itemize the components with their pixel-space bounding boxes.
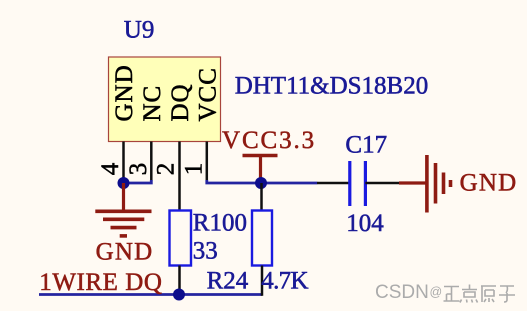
点 bbox=[460, 285, 478, 303]
pin 4 wire bbox=[122, 142, 125, 184]
svg-text:R100: R100 bbox=[193, 210, 247, 237]
ground symbol left bbox=[95, 183, 151, 236]
svg-text:VCC: VCC bbox=[195, 67, 222, 121]
svg-text:NC: NC bbox=[139, 85, 166, 122]
resistor R100 bottom lead bbox=[178, 266, 181, 295]
capacitor C17 plates bbox=[348, 161, 351, 206]
svg-text:104: 104 bbox=[346, 210, 384, 237]
svg-text:1: 1 bbox=[180, 163, 207, 176]
wire pin1 to VCC node bbox=[207, 180, 317, 183]
正 bbox=[444, 287, 460, 302]
svg-text:3: 3 bbox=[125, 163, 152, 176]
svg-text:DQ: DQ bbox=[167, 83, 194, 121]
svg-text:GND: GND bbox=[96, 239, 154, 266]
capacitor C17 left lead bbox=[317, 182, 350, 185]
svg-text:4: 4 bbox=[97, 162, 124, 175]
svg-text:GND: GND bbox=[111, 64, 138, 121]
component U9 body bbox=[109, 57, 221, 142]
svg-text:C17: C17 bbox=[345, 132, 387, 159]
wire pin3 to pin4 elbow bbox=[124, 180, 152, 183]
resistor R24 bottom lead bbox=[261, 266, 264, 296]
svg-text:VCC3.3: VCC3.3 bbox=[222, 127, 316, 154]
svg-text:4.7K: 4.7K bbox=[261, 268, 308, 295]
svg-text:DHT11&DS18B20: DHT11&DS18B20 bbox=[235, 73, 429, 100]
pin 2 wire bbox=[178, 142, 181, 211]
svg-text:CSDN: CSDN bbox=[375, 282, 429, 303]
原 bbox=[481, 286, 496, 302]
svg-text:@: @ bbox=[430, 285, 443, 299]
svg-text:GND: GND bbox=[460, 170, 518, 197]
watermark chinese 正点原子 bbox=[444, 285, 516, 303]
junction node 1WIRE_DQ bbox=[173, 289, 185, 301]
svg-text:2: 2 bbox=[153, 163, 180, 176]
svg-text:U9: U9 bbox=[124, 17, 155, 44]
resistor R24 bbox=[252, 211, 272, 266]
svg-text:33: 33 bbox=[193, 238, 218, 265]
pin 1 wire bbox=[206, 142, 209, 181]
子 bbox=[499, 286, 515, 302]
pin 3 wire bbox=[150, 142, 153, 182]
junction node pin4/GND bbox=[118, 177, 130, 189]
power port VCC3.3 bbox=[243, 156, 278, 184]
resistor R100 bbox=[170, 211, 192, 266]
capacitor C17 right lead bbox=[365, 182, 399, 185]
ground symbol right bbox=[399, 155, 451, 213]
wire 1WIRE_DQ bbox=[39, 293, 262, 296]
resistor R24 top lead bbox=[260, 183, 263, 211]
svg-text:1WIRE DQ: 1WIRE DQ bbox=[39, 269, 162, 296]
junction node VCC bbox=[255, 177, 267, 189]
svg-text:R24: R24 bbox=[207, 268, 249, 295]
